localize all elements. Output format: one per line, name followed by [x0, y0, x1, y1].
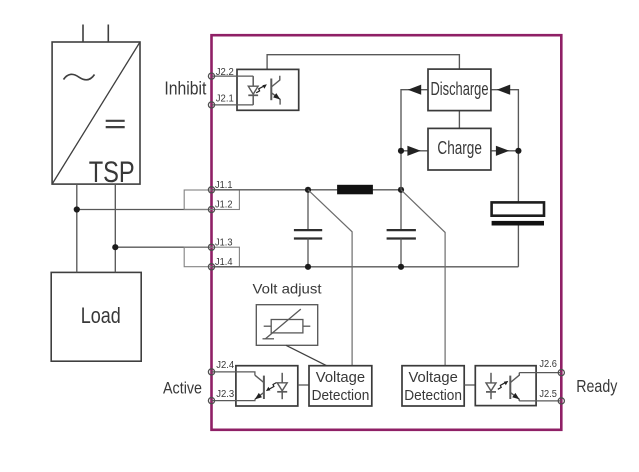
terminal J2.5 [558, 398, 564, 404]
svg-text:Detection: Detection [404, 388, 462, 404]
terminal J1.2 [208, 206, 214, 212]
Voltage Detection 1 box [309, 366, 372, 406]
storage capacitor bottom plate [492, 221, 544, 226]
wire TSP to Load (left) [76, 184, 78, 272]
svg-text:Inhibit: Inhibit [164, 78, 206, 99]
AC input line L [82, 25, 84, 43]
svg-text:J2.4: J2.4 [216, 360, 234, 371]
LED (ready opto) [486, 373, 496, 399]
terminal J1.1 [208, 187, 214, 193]
LED (inhibit opto) [248, 76, 258, 105]
potentiometer (volt adjust) [263, 309, 311, 339]
optocoupler (Ready output) box [475, 366, 536, 406]
wire charge-right vertical [491, 90, 519, 203]
junction dot [398, 148, 404, 154]
svg-text:Volt adjust: Volt adjust [253, 281, 322, 297]
Volt adjust box [256, 305, 317, 346]
terminal J2.2 [208, 73, 214, 79]
svg-text:J2.5: J2.5 [539, 389, 557, 400]
Discharge box [428, 69, 491, 111]
junction dot [305, 187, 311, 193]
wire active opto to Voltage Detection 1 [298, 384, 309, 386]
svg-text:J2.3: J2.3 [216, 389, 234, 400]
wire charge-left vertical [401, 90, 428, 190]
Charge box [428, 128, 491, 170]
optocoupler (Inhibit input) box [237, 69, 299, 110]
Voltage Detection 2 box [402, 366, 464, 406]
wire TSP to Load (right) [114, 184, 116, 272]
wire storage capacitor to bottom bus [517, 226, 519, 267]
wire J2.1 to LED cathode [212, 104, 254, 106]
junction dot [112, 244, 118, 250]
phototransistor (inhibit opto) [271, 76, 280, 105]
svg-text:J1.2: J1.2 [215, 200, 233, 211]
wire sense tap to Voltage Detection 1 [308, 190, 352, 366]
arrow out of Discharge (left) [408, 85, 421, 95]
terminal J2.1 [208, 102, 214, 108]
capacitor C2 [387, 190, 416, 267]
wire charge-right horizontal [491, 150, 519, 152]
light arrow (active opto) [266, 383, 277, 392]
Load box [51, 272, 141, 361]
AC sine symbol [64, 74, 95, 79]
wire phototransistor collector to J2.6 [519, 372, 561, 374]
arrow into Discharge (right) [497, 85, 510, 95]
light arrow (ready opto) [498, 381, 509, 389]
wire top bus [212, 189, 402, 191]
wire Voltage Detection 2 to ready opto [464, 384, 475, 386]
svg-text:TSP: TSP [89, 156, 135, 189]
junction dot [305, 264, 311, 270]
svg-text:Detection: Detection [312, 388, 370, 404]
connector block J1.3/J1.4 [184, 247, 239, 267]
connector block J1.1/J1.2 [184, 190, 239, 210]
wire J2.2 to LED anode [212, 75, 254, 77]
AC input line N [107, 25, 109, 43]
terminal J2.6 [558, 370, 564, 376]
wire bottom bus [212, 266, 519, 268]
arrow out of Charge (right) [496, 146, 509, 156]
terminal J1.4 [208, 264, 214, 270]
capacitor C1 [294, 190, 322, 267]
label Voltage Detection 1 [312, 370, 370, 404]
terminal J2.3 [208, 398, 214, 404]
phototransistor (ready opto) [510, 373, 519, 401]
storage capacitor top plate [492, 202, 544, 215]
optocoupler (Active output) box [236, 366, 298, 406]
svg-text:Active: Active [163, 378, 202, 397]
wire charge-left horizontal [401, 150, 428, 152]
svg-text:J2.1: J2.1 [216, 93, 234, 104]
svg-text:J2.2: J2.2 [216, 67, 234, 78]
junction dot [398, 187, 404, 193]
junction dot [515, 148, 521, 154]
wire inhibit opto to Discharge [267, 55, 459, 70]
terminal J1.3 [208, 244, 214, 250]
wire J2.4 to phototransistor collector [212, 372, 255, 375]
svg-text:Voltage: Voltage [316, 370, 365, 386]
svg-text:J1.1: J1.1 [215, 180, 233, 191]
terminal J2.4 [208, 369, 214, 375]
svg-text:J2.6: J2.6 [539, 359, 557, 370]
wire J2.3 to phototransistor emitter [212, 399, 255, 400]
magenta module boundary box [212, 35, 562, 430]
phototransistor (active opto) [255, 375, 264, 399]
DC equals symbol [106, 121, 125, 127]
TSP power supply box [52, 42, 140, 184]
svg-text:J1.4: J1.4 [215, 257, 233, 268]
junction dot [398, 264, 404, 270]
svg-text:Load: Load [81, 303, 121, 328]
svg-text:J1.3: J1.3 [215, 238, 233, 249]
wire to J1.2 [77, 209, 212, 211]
label Voltage Detection 2 [404, 370, 462, 404]
light arrow (inhibit opto) [256, 84, 267, 93]
wire volt adjust to Voltage Detection 1 [286, 345, 327, 365]
inductor L1 [337, 185, 373, 195]
svg-text:Discharge: Discharge [431, 79, 489, 99]
svg-text:Charge: Charge [437, 138, 482, 158]
wire sense tap to Voltage Detection 2 [401, 190, 445, 366]
LED (active opto) [277, 373, 287, 399]
junction dot [74, 206, 80, 212]
wire to J1.3 [115, 246, 211, 248]
arrow into Charge (left) [407, 146, 420, 156]
wire Discharge to Charge [458, 111, 460, 129]
wire phototransistor emitter to J2.5 [519, 400, 561, 402]
svg-text:Voltage: Voltage [409, 370, 458, 386]
svg-text:Ready: Ready [576, 376, 617, 396]
